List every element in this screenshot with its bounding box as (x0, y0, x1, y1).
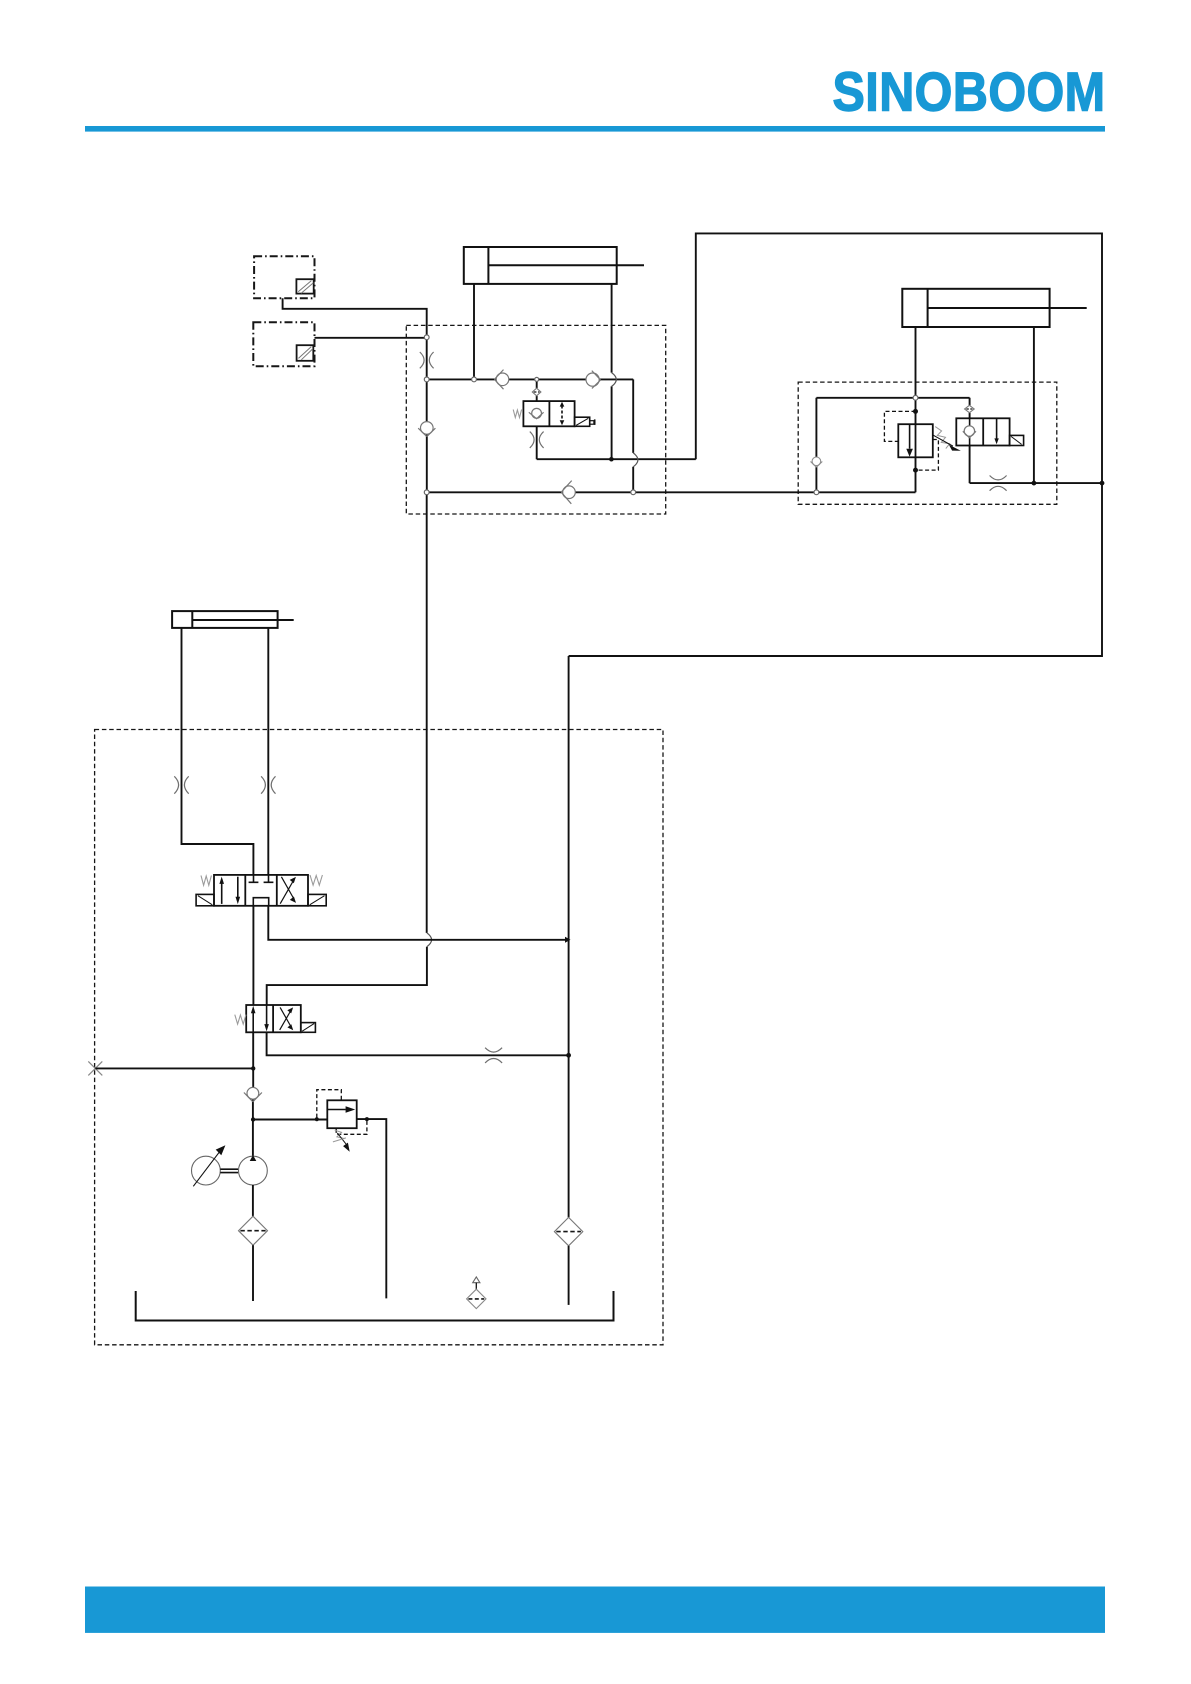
DV1 right position crossed arrows (280, 877, 296, 904)
junction dot on return at DV2 branch (566, 1053, 571, 1058)
line jump of vertical over line B (633, 453, 638, 467)
manifold block 1 enclosure (406, 325, 665, 514)
relief valve RV2 body (898, 424, 933, 457)
motor-pump shaft (220, 1169, 238, 1172)
valve 1 flow arrow (right square) (560, 402, 565, 426)
V2 poppet ball and seat (963, 426, 976, 438)
wire cylinder1 rod side down (611, 284, 613, 457)
wire box2 to node A (315, 337, 425, 339)
pump suction line (252, 1185, 254, 1216)
cylinder 2 body (902, 289, 1049, 327)
wire cylinder1 cap side down (473, 284, 475, 377)
junction dot at test port branch (251, 1066, 255, 1070)
check valve CV3 on line C (561, 481, 575, 504)
DV1 centre position blocked ports (249, 875, 274, 906)
quick coupling below valve 1 (530, 432, 544, 448)
node circle B (424, 377, 429, 382)
RV2 pilot line right (918, 440, 939, 471)
RV2 outlet down to line C (915, 457, 917, 492)
valve 1 poppet ball and seat (529, 408, 544, 418)
return pipe into tank (568, 1246, 570, 1305)
pilot orifice diamond (532, 388, 541, 396)
relief valve RV1 body (327, 1100, 356, 1128)
check valve CV5 above pump (244, 1087, 262, 1101)
DV1 left position arrows (219, 877, 240, 905)
quick coupling on cyl3 right hose (261, 776, 275, 793)
junction dot below RV2 (913, 468, 918, 473)
junction dot at right drop (1100, 481, 1105, 486)
pilot tap down to valve 1 (536, 382, 538, 402)
block2 right branch with orifice diamond (969, 398, 971, 419)
RV1 pilot line right (336, 1121, 367, 1134)
RV2 spring (935, 427, 949, 449)
line jump of long vertical over return line (427, 933, 432, 947)
breather (467, 1277, 486, 1309)
DV2 spring (235, 1015, 246, 1025)
wire valve1 down and line B (537, 426, 696, 459)
DV1 tank port to return (268, 906, 566, 940)
quick coupling on line V1 (420, 352, 434, 368)
cylinder 3 body (172, 611, 278, 628)
DV2 tank port across to return (267, 1032, 567, 1055)
hydraulic pump circle (239, 1155, 268, 1185)
node circle A (424, 335, 429, 340)
DV1 port down to DV2 (252, 906, 254, 1005)
directional valve DV2 body 4/2 (246, 1005, 301, 1032)
directional valve DV1 body 4/3 (214, 875, 308, 906)
node circle pilot tap (535, 377, 539, 381)
valve 1 spring (513, 410, 521, 418)
RV1 spring (335, 1130, 345, 1138)
junction dot above RV2 (913, 409, 918, 414)
wire line B up over to right drop (569, 233, 1102, 656)
wire line A corner down (632, 379, 634, 490)
cylinder 3 piston (191, 611, 193, 628)
line jump of vertical over line A (612, 373, 617, 387)
plugged test port X (88, 1061, 102, 1075)
cylinder 2 rod (928, 307, 1087, 309)
DV2 solenoid (301, 1023, 316, 1033)
junction dot at pump outlet (251, 1117, 255, 1121)
tank (136, 1291, 614, 1321)
DV1 right solenoid (308, 894, 326, 905)
valve 1 solenoid (575, 417, 595, 426)
suction pipe into tank (252, 1245, 254, 1301)
DV2 outlet to pump line (252, 1032, 254, 1156)
long vertical from block1 to lower valves (267, 495, 427, 1006)
RV1 pilot tap dots (315, 1117, 369, 1121)
cylinder 1 (platform) body (464, 247, 617, 284)
cylinder 1 piston (487, 247, 489, 284)
DV1 left solenoid (196, 894, 214, 905)
suction strainer (239, 1216, 268, 1245)
wire cylinder3 cap side down (182, 628, 254, 875)
node circle cylinder1 cap branch (472, 377, 477, 382)
solenoid cartridge valve 1 body (523, 401, 574, 426)
wire cylinder2 cap side to relief RV2 (915, 327, 917, 424)
wire test port to pump line (95, 1067, 251, 1069)
node circle line C left (424, 490, 429, 495)
solenoid valve V2 body (956, 418, 1009, 445)
junction dot on line B (609, 457, 614, 462)
svg-text:SINOBOOM: SINOBOOM (833, 61, 1106, 123)
DV1 left spring (201, 876, 211, 886)
control box 2 (253, 322, 314, 366)
check valve CV2 on line A (586, 371, 601, 389)
junction dot cylinder2 rod line (1032, 481, 1037, 486)
node circle block2 inlet (814, 490, 819, 495)
block2 left branch down (815, 398, 817, 490)
check valve CV4 (418, 422, 435, 437)
check valve CV6 in block2 (811, 457, 823, 467)
block2 top header line (816, 397, 969, 399)
RV1 outlet to tank drop (357, 1119, 387, 1298)
control box 1 (254, 256, 314, 298)
RV1 pilot line left (317, 1090, 342, 1118)
DV2 straight arrows (251, 1005, 269, 1032)
wire box1 to node A (283, 298, 427, 335)
wire cylinder3 rod side down (267, 628, 269, 875)
footer bar (85, 1587, 1105, 1633)
cylinder 2 piston (927, 289, 929, 327)
main line A (427, 378, 634, 380)
quick coupling on return branch (485, 1048, 502, 1063)
DV1 right spring (310, 875, 322, 885)
V2 solenoid (1010, 435, 1024, 445)
RV2 pilot line left (884, 411, 915, 441)
left vertical with check valve CV4 (426, 382, 428, 491)
quick coupling on block2 outlet (990, 476, 1007, 491)
orifice diamond above valve V2 (965, 405, 975, 412)
electric motor circle (192, 1145, 226, 1186)
RV1 adjusting arrow (333, 1133, 350, 1152)
pump pressure line to relief RV1 (253, 1119, 327, 1121)
arrow tip at return junction (565, 937, 571, 943)
V2 flow arrow (994, 418, 998, 444)
V2 outlet down and across to return (970, 446, 1102, 484)
cylinder 3 rod (192, 619, 293, 621)
manifold block 2 enclosure (798, 382, 1057, 504)
bottom line C (427, 491, 916, 493)
check valve CV1 on line A (494, 370, 508, 390)
RV2 adjusting arrow (932, 435, 961, 451)
cylinder 1 rod (488, 264, 644, 266)
connector plug square in box 1 (296, 279, 313, 293)
quick coupling on cyl3 left hose (174, 776, 188, 793)
connector plug square in box 2 (297, 345, 314, 361)
wire node A down to coupling (426, 340, 428, 378)
node circle block2 header (913, 395, 918, 400)
right return drop line (568, 656, 570, 1217)
power unit enclosure (95, 730, 663, 1345)
wire cylinder2 rod side down (1033, 327, 1035, 482)
DV2 crossed arrows (280, 1007, 294, 1030)
header rule (85, 126, 1105, 132)
node circle line C mid (631, 490, 636, 495)
return filter (554, 1217, 582, 1245)
